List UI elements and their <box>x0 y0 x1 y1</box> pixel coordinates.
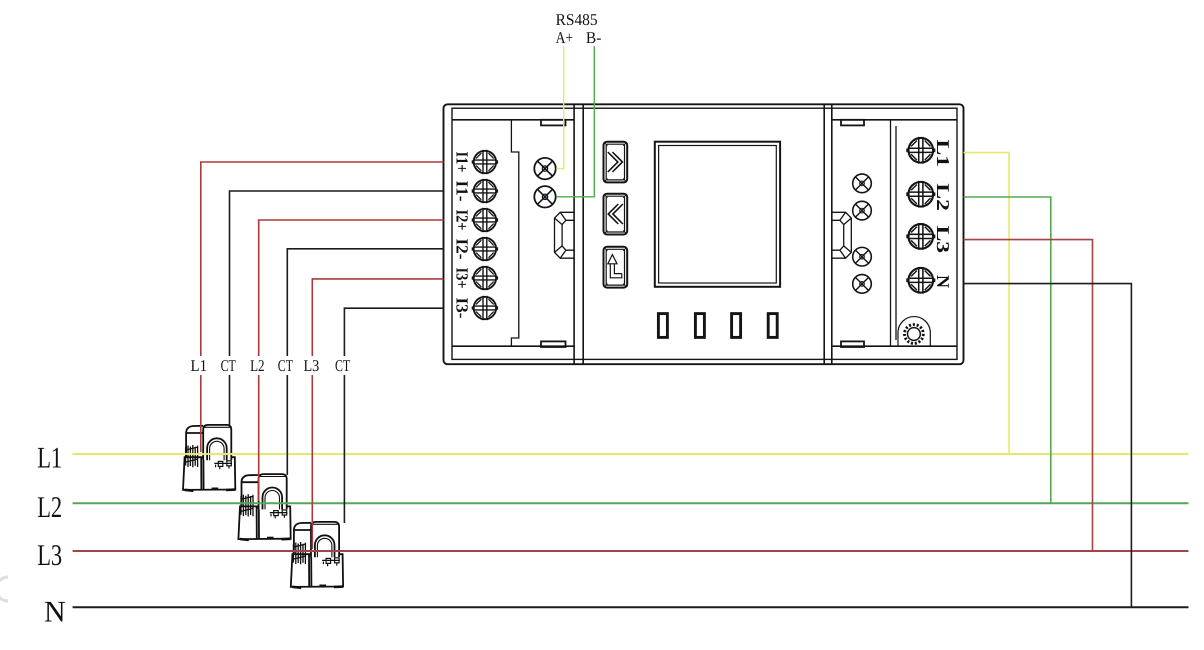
svg-text:I1+: I1+ <box>453 152 472 173</box>
svg-text:CT: CT <box>278 356 293 375</box>
svg-text:L1: L1 <box>37 442 62 475</box>
svg-text:L1: L1 <box>191 356 208 375</box>
svg-text:CT: CT <box>335 356 350 375</box>
svg-text:I3+: I3+ <box>453 268 472 289</box>
svg-text:A+: A+ <box>556 28 574 47</box>
svg-text:L2: L2 <box>37 491 62 524</box>
svg-text:L3: L3 <box>37 539 62 572</box>
svg-text:L1: L1 <box>933 140 953 168</box>
svg-text:I2+: I2+ <box>453 210 472 231</box>
svg-text:L2: L2 <box>250 356 265 375</box>
svg-text:I2-: I2- <box>453 239 472 260</box>
svg-text:I1-: I1- <box>453 181 472 202</box>
svg-text:I3-: I3- <box>453 298 472 319</box>
svg-text:CT: CT <box>221 356 236 375</box>
svg-text:B-: B- <box>586 28 602 47</box>
svg-text:RS485: RS485 <box>556 10 598 29</box>
svg-text:L2: L2 <box>933 183 953 211</box>
svg-text:N: N <box>44 596 66 629</box>
svg-text:L3: L3 <box>304 356 320 375</box>
svg-text:L3: L3 <box>933 226 953 254</box>
svg-text:N: N <box>933 275 953 288</box>
